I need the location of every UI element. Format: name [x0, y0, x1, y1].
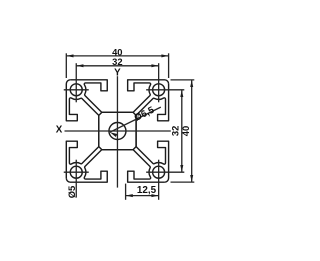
corner bore Ø5 top-left: [70, 84, 82, 96]
svg-text:40: 40: [180, 126, 191, 136]
center bore hole Ø6.5: [109, 123, 126, 140]
svg-text:Ø5: Ø5: [66, 186, 77, 199]
svg-text:32: 32: [170, 126, 181, 136]
profile outline quadrant: bottom face with T-slot: [66, 150, 164, 183]
crosshair bottom-left bore with Ø5 leader: [64, 160, 89, 198]
corner bore Ø5 bottom-left: [70, 166, 82, 178]
dimension 40 top: [66, 53, 168, 78]
crosshair bottom-right bore: [146, 160, 184, 200]
dimension 12,5 bottom: [126, 184, 159, 200]
corner bore Ø5 bottom-right: [153, 166, 165, 178]
dimension 32 top: [76, 64, 158, 67]
profile outline quadrant: top face with T-slot: [70, 80, 168, 113]
crosshair top-left bore: [64, 63, 89, 102]
svg-text:Y: Y: [114, 67, 121, 78]
leader line Ø6,5 center hole: [110, 107, 161, 137]
dimension 32 right: [180, 90, 183, 172]
svg-text:32: 32: [112, 56, 122, 67]
X centerline: [65, 130, 171, 132]
dimension 40 right: [171, 80, 195, 182]
svg-text:12,5: 12,5: [137, 185, 157, 196]
corner bore Ø5 top-right: [153, 84, 165, 96]
profile outline quadrant: left face with T-slot: [66, 80, 99, 178]
svg-text:X: X: [56, 125, 63, 136]
crosshair top-right bore: [146, 63, 184, 102]
Y centerline: [116, 76, 118, 187]
center core octagon: [99, 112, 136, 149]
profile outline quadrant: right face with T-slot: [136, 84, 169, 182]
